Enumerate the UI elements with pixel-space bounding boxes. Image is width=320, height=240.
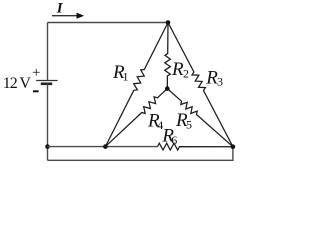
node A	[103, 144, 108, 149]
battery V1	[36, 81, 57, 84]
svg-text:1: 1	[123, 70, 129, 84]
svg-text:3: 3	[217, 75, 223, 89]
wire: bottom bus left (left junction to resistor R6)	[48, 146, 158, 148]
wire: left upper segment (battery + up to top-left corner)	[47, 23, 49, 81]
svg-text:5: 5	[186, 118, 192, 132]
wire: top horizontal (corner to node T)	[48, 22, 169, 24]
svg-text:2: 2	[183, 67, 189, 81]
wire: left lower segment (battery - down to bottom-left corner)	[47, 84, 49, 161]
node T	[166, 20, 171, 25]
resistor R1 (node T to node A)	[105, 23, 168, 147]
resistor R6 (node A to node B on bottom bus)	[158, 143, 233, 150]
node B	[231, 144, 236, 149]
current arrow I	[52, 13, 84, 19]
node M	[165, 86, 170, 91]
svg-text:+: +	[32, 65, 40, 81]
svg-text:I: I	[56, 1, 64, 17]
resistor R5 (node M to node B)	[167, 89, 233, 147]
resistor R3 (node T to node B)	[168, 23, 233, 147]
junction on left wire	[45, 144, 50, 149]
svg-text:6: 6	[171, 133, 177, 147]
svg-text:12 V: 12 V	[3, 75, 32, 92]
wire: bottom return (bottom-left corner to right riser up to node B)	[48, 147, 233, 161]
resistor R4 (node M to node A)	[105, 89, 167, 147]
battery - terminal label	[33, 90, 39, 92]
resistor R2 (node T to node M)	[165, 23, 171, 89]
